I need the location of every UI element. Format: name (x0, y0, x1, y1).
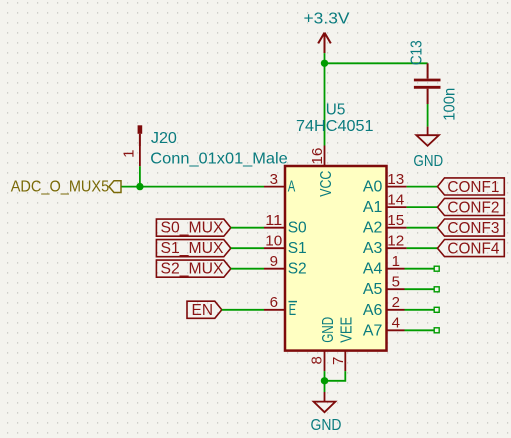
wire junction to GND symbol (324, 381, 326, 392)
svg-text:U5: U5 (326, 101, 346, 118)
wire S1_MUX to pin (231, 247, 264, 249)
svg-text:CONF3: CONF3 (447, 220, 499, 237)
svg-text:E: E (289, 302, 297, 319)
svg-text:74HC4051: 74HC4051 (296, 118, 374, 135)
svg-text:1: 1 (392, 253, 400, 270)
svg-text:5: 5 (392, 273, 400, 290)
wire junction to C13 (325, 62, 428, 64)
E overline (289, 301, 298, 303)
svg-text:A: A (288, 179, 296, 196)
svg-text:14: 14 (387, 191, 404, 208)
hierarchical label ADC_O_MUX5 (11, 179, 121, 196)
global label CONF2 (438, 198, 505, 216)
wire junction down to pin 16 (324, 63, 326, 145)
pin 9 (S2) (264, 268, 285, 270)
svg-text:S1_MUX: S1_MUX (161, 240, 224, 257)
svg-text:CONF4: CONF4 (447, 240, 499, 257)
global label S2_MUX (156, 260, 230, 278)
svg-text:13: 13 (387, 171, 404, 188)
wire ADC_O_MUX5 to pin A (122, 186, 265, 188)
svg-text:10: 10 (265, 232, 282, 249)
wire pin7 to junction (325, 371, 346, 381)
junction top (321, 60, 328, 67)
pin 3 (A) (264, 186, 285, 188)
svg-text:Conn_01x01_Male: Conn_01x01_Male (150, 150, 288, 167)
pin 16 (VCC) (324, 146, 326, 167)
svg-text:12: 12 (387, 232, 404, 249)
svg-text:16: 16 (309, 148, 326, 165)
wire S2_MUX to pin (231, 268, 264, 270)
svg-text:S0_MUX: S0_MUX (161, 220, 224, 237)
junction bottom (321, 377, 328, 384)
svg-text:C13: C13 (408, 40, 425, 65)
svg-text:GND: GND (413, 153, 443, 170)
global label CONF4 (438, 240, 505, 258)
svg-text:A0: A0 (363, 179, 383, 196)
wire end square A7 (434, 328, 439, 333)
svg-text:S1: S1 (288, 240, 307, 257)
wire +3.3V to junction (324, 53, 326, 63)
svg-text:6: 6 (270, 294, 278, 311)
svg-text:VCC: VCC (318, 171, 335, 197)
svg-text:9: 9 (270, 253, 278, 270)
svg-text:100n: 100n (441, 88, 458, 121)
ground symbol GND (bottom) (314, 392, 336, 412)
IC U5 body (285, 166, 387, 351)
svg-text:A5: A5 (363, 281, 383, 298)
wire pin8 to junction (324, 371, 326, 381)
global label EN (187, 301, 222, 319)
capacitor C13 (414, 63, 441, 104)
svg-text:4: 4 (392, 315, 400, 332)
junction left (136, 183, 143, 190)
svg-text:CONF2: CONF2 (447, 199, 499, 216)
svg-text:A3: A3 (363, 240, 383, 257)
svg-text:GND: GND (311, 417, 342, 434)
ground symbol GND (right) (416, 127, 439, 146)
svg-text:A6: A6 (363, 302, 383, 319)
svg-text:GND: GND (320, 317, 337, 343)
svg-text:7: 7 (330, 357, 347, 365)
svg-text:+3.3V: +3.3V (304, 10, 350, 27)
svg-text:S0: S0 (288, 220, 307, 237)
global label CONF3 (438, 219, 505, 237)
connector J20 (138, 125, 143, 166)
svg-text:A4: A4 (363, 261, 383, 278)
wire C13 to GND (427, 104, 429, 127)
svg-text:EN: EN (192, 302, 214, 319)
right pin numbers 13,14,15,12,1,5,2,4 (387, 171, 404, 332)
svg-text:8: 8 (309, 356, 326, 364)
svg-text:ADC_O_MUX5: ADC_O_MUX5 (11, 179, 110, 196)
power symbol +3.3V (318, 33, 331, 54)
svg-text:S2_MUX: S2_MUX (161, 261, 224, 278)
global label S0_MUX (156, 219, 230, 237)
svg-text:S2: S2 (288, 261, 307, 278)
svg-text:A1: A1 (363, 199, 383, 216)
svg-text:A2: A2 (363, 220, 383, 237)
right pin names A0-A7 (363, 179, 383, 340)
wire end square A6 (434, 307, 439, 312)
pin 8 (GND) (324, 351, 326, 372)
wire J20 down to wire (139, 166, 141, 186)
wire S0_MUX to pin (231, 227, 264, 229)
pin 11 (S0) (264, 227, 285, 229)
wire end square A4 (434, 266, 439, 271)
svg-text:2: 2 (392, 294, 400, 311)
open wires A4-A7 (405, 269, 435, 331)
svg-text:1: 1 (121, 150, 138, 158)
pin 7 (VEE) (344, 351, 346, 372)
svg-text:11: 11 (265, 212, 282, 229)
wires A0-A3 to CONF labels (407, 187, 438, 249)
pin 10 (S1) (264, 247, 285, 249)
wire EN to pin 6 (222, 309, 264, 311)
svg-text:3: 3 (270, 171, 278, 188)
svg-text:J20: J20 (151, 130, 177, 147)
svg-text:A7: A7 (363, 322, 383, 339)
svg-text:15: 15 (387, 212, 404, 229)
global label S1_MUX (156, 240, 230, 258)
svg-text:VEE: VEE (338, 317, 355, 343)
right pin lines A0-A7 (387, 187, 407, 331)
pin 6 (E) (264, 309, 285, 311)
wire end square A5 (434, 287, 439, 292)
global label CONF1 (438, 178, 505, 196)
svg-text:CONF1: CONF1 (447, 179, 499, 196)
